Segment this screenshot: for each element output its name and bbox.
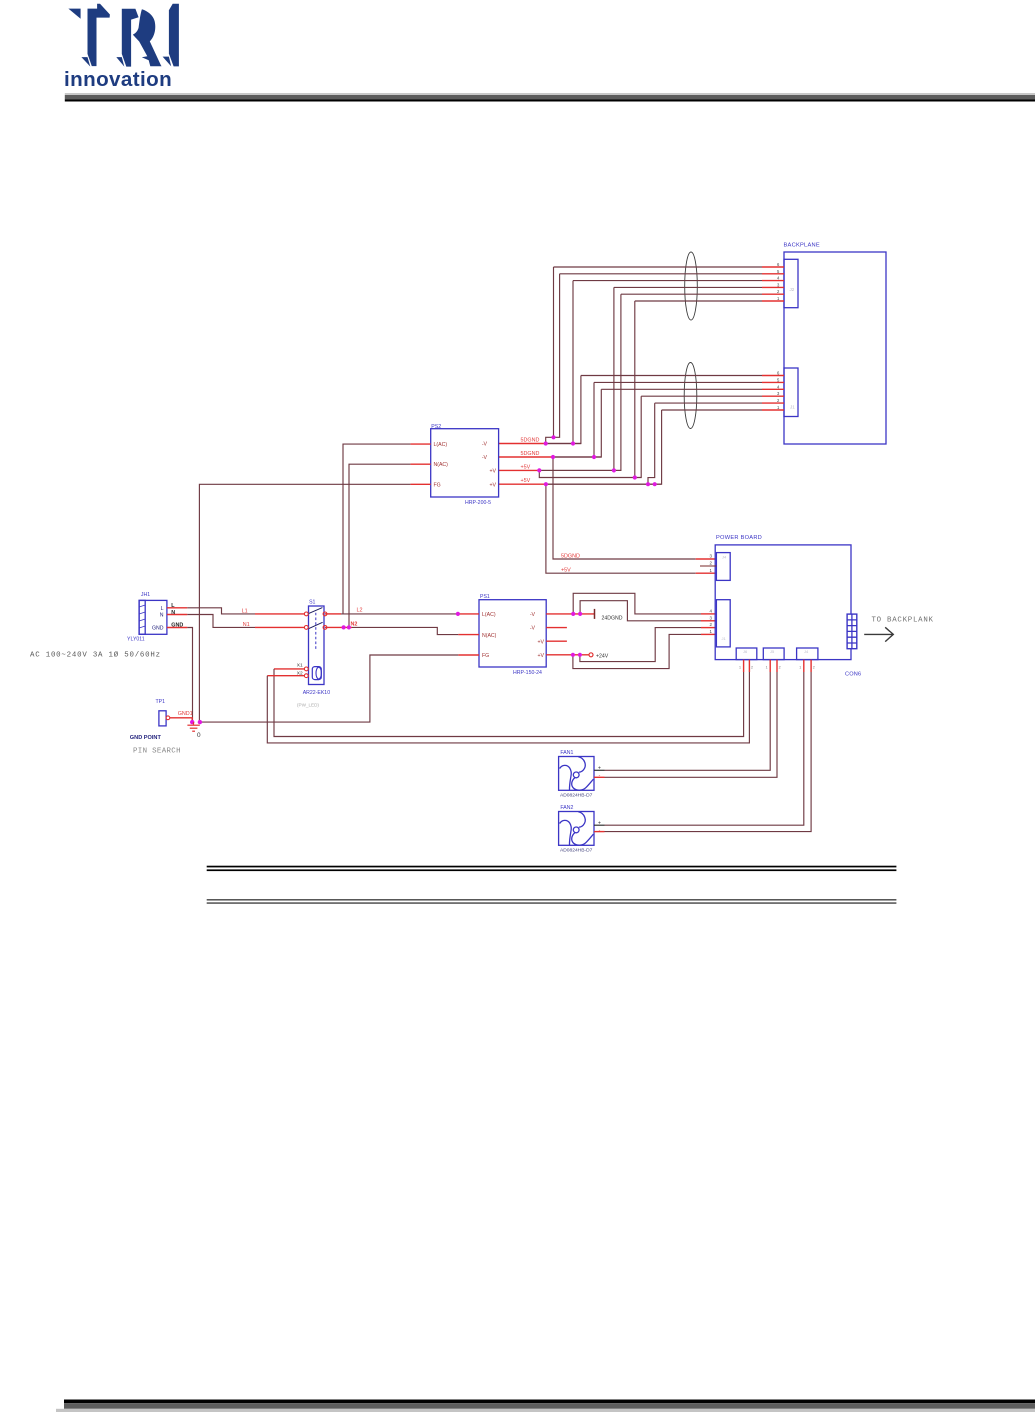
wire 24DGND outer to power board pin4 xyxy=(573,593,701,614)
footer rule xyxy=(56,1400,1035,1412)
svg-text:2: 2 xyxy=(751,666,753,670)
svg-text:L(AC): L(AC) xyxy=(434,442,448,448)
svg-text:L2: L2 xyxy=(357,608,363,614)
wire PS2 FG to ground xyxy=(199,484,410,722)
wire net N1 xyxy=(187,615,255,628)
svg-text:S1: S1 xyxy=(309,599,315,605)
svg-text:1: 1 xyxy=(799,666,801,670)
power board connector J6 (bottom 1) xyxy=(736,648,757,672)
fan FAN2 AD0824HB-D7 xyxy=(559,805,605,853)
svg-text:BACKPLANE: BACKPLANE xyxy=(784,243,820,249)
svg-text:3: 3 xyxy=(777,391,780,396)
svg-text:N: N xyxy=(160,613,164,619)
wire PS2 +V2 row +5V xyxy=(499,483,546,485)
svg-text:FG: FG xyxy=(434,482,441,488)
power supply PS1 HRP-150-24 xyxy=(458,594,567,676)
svg-text:HRP-150-24: HRP-150-24 xyxy=(513,670,542,676)
switch pole contacts xyxy=(304,612,308,616)
cable ellipse bottom xyxy=(684,363,697,429)
svg-text:N2: N2 xyxy=(351,621,358,627)
svg-text:CON6: CON6 xyxy=(845,672,861,678)
svg-text:3: 3 xyxy=(777,282,780,287)
wire FAN2 - to power board J4b xyxy=(605,672,812,832)
logo TRI innovation xyxy=(64,4,179,91)
power board xyxy=(715,535,851,660)
svg-text:PS1: PS1 xyxy=(480,594,490,600)
power board connector J5 (bottom 2) xyxy=(763,648,784,672)
svg-text:2: 2 xyxy=(779,666,781,670)
wire net 5DGND-A to J2 pin6 xyxy=(554,266,763,268)
power board connector J4b (bottom 3) xyxy=(797,648,818,672)
svg-text:5: 5 xyxy=(777,269,780,274)
wire PS2 +V1 row +5V xyxy=(499,469,540,471)
svg-text:5DGND: 5DGND xyxy=(521,438,540,444)
svg-text:1: 1 xyxy=(710,629,713,634)
connector J2 (backplane top) xyxy=(762,259,798,307)
wire +24V outer to power board pin1 xyxy=(573,634,701,668)
wire net 5DGND-B to J1 pin5 xyxy=(594,381,762,383)
svg-text:1: 1 xyxy=(710,568,713,573)
wire net 5DGND-A to J2 pin5 xyxy=(560,273,762,275)
svg-text:-V: -V xyxy=(530,612,536,618)
ground symbol xyxy=(187,722,199,731)
svg-text:24DGND: 24DGND xyxy=(602,615,623,621)
svg-text:N(AC): N(AC) xyxy=(434,462,449,468)
svg-text:TO BACKPLANK: TO BACKPLANK xyxy=(872,617,934,625)
svg-text:J6: J6 xyxy=(743,649,748,654)
svg-text:YLY011: YLY011 xyxy=(127,636,145,642)
svg-text:J5: J5 xyxy=(770,649,775,654)
wire drop +5V to power board pin1 xyxy=(546,484,696,573)
wire net 24DGND from PS1 -V xyxy=(546,613,594,615)
svg-text:GND1: GND1 xyxy=(178,711,193,717)
svg-text:J1: J1 xyxy=(790,405,795,410)
wire X1 pin2 to power board J6 xyxy=(267,675,304,677)
junction dots 24DGND xyxy=(571,612,582,616)
svg-text:FAN2: FAN2 xyxy=(560,805,573,811)
fan FAN1 AD0824HB-D7 xyxy=(559,750,605,798)
header rule xyxy=(65,93,1035,102)
wire ground bus to PS1 FG xyxy=(200,655,458,722)
svg-text:J2: J2 xyxy=(790,287,795,292)
wire FAN1 - to power board J5 xyxy=(605,672,778,777)
svg-text:5: 5 xyxy=(777,377,780,382)
svg-text:GND POINT: GND POINT xyxy=(130,735,162,741)
svg-text:6: 6 xyxy=(777,262,780,267)
svg-text:POWER BOARD: POWER BOARD xyxy=(716,535,762,541)
arrow to backplane xyxy=(864,627,893,641)
junction dots N2/L2 xyxy=(342,612,461,630)
svg-text:+24V: +24V xyxy=(596,653,609,659)
wire net 5DGND-B to J1 pin4 xyxy=(601,388,762,390)
wire drop 5DGND to power board pin3 xyxy=(553,457,696,559)
svg-text:2: 2 xyxy=(777,398,780,403)
svg-text:+5V: +5V xyxy=(521,478,531,484)
wire net +5V-A to J1 pin3 xyxy=(641,395,762,397)
svg-text:J4: J4 xyxy=(804,649,809,654)
svg-text:X1: X1 xyxy=(297,663,303,669)
wire net +5V-A to J2 pin2 xyxy=(621,293,762,295)
svg-text:+V: +V xyxy=(538,653,545,659)
separator double line 2 xyxy=(207,899,897,903)
svg-text:AD0824HB-D7: AD0824HB-D7 xyxy=(560,792,593,798)
wire net L1 xyxy=(187,608,255,614)
svg-text:N(AC): N(AC) xyxy=(482,633,497,639)
svg-text:6: 6 xyxy=(777,371,780,376)
backplane board xyxy=(784,243,887,445)
junction dots ground xyxy=(190,720,202,724)
wire net +5V-B to J1 pin1 xyxy=(662,409,762,411)
svg-text:JH1: JH1 xyxy=(141,592,150,598)
wire PS2 L(AC) from L2 xyxy=(343,444,410,614)
svg-text:+V: +V xyxy=(538,639,545,645)
svg-text:GND: GND xyxy=(171,622,183,628)
svg-text:1: 1 xyxy=(766,666,768,670)
wire FAN1 + to power board J5 xyxy=(605,672,771,770)
svg-text:L1: L1 xyxy=(242,608,248,614)
power board connector J1 (mid-left 4pin) xyxy=(710,600,731,647)
svg-text:4: 4 xyxy=(777,276,780,281)
wire JH1 GND down xyxy=(187,628,192,723)
svg-text:5DGND: 5DGND xyxy=(561,554,580,560)
svg-text:N: N xyxy=(171,610,175,616)
svg-text:HRP-200-5: HRP-200-5 xyxy=(465,500,491,506)
junction dots +24V xyxy=(571,653,582,657)
svg-text:1: 1 xyxy=(739,666,741,670)
svg-text:PIN SEARCH: PIN SEARCH xyxy=(133,748,181,756)
cable ellipse top xyxy=(685,252,698,320)
wire net L2 xyxy=(325,613,341,615)
svg-text:1: 1 xyxy=(777,296,780,301)
connector J1 (backplane bottom) xyxy=(762,368,798,417)
connector CON6 xyxy=(845,614,861,677)
power board connector J4 (top-left 3pin) xyxy=(700,553,730,581)
wire X1 pin1 to power board J6 xyxy=(274,668,304,670)
wire 24DGND inner to power board pin3 xyxy=(580,601,701,621)
svg-text:+5V: +5V xyxy=(561,568,571,574)
svg-text:TP1: TP1 xyxy=(156,699,166,705)
svg-text:1: 1 xyxy=(777,405,780,410)
svg-text:+V: +V xyxy=(490,469,497,475)
power supply PS2 HRP-200-5 xyxy=(410,424,498,506)
svg-text:(PW_LED): (PW_LED) xyxy=(297,703,319,708)
svg-text:-V: -V xyxy=(482,455,488,461)
wire FAN2 + to power board J4b xyxy=(605,672,804,825)
wire PS2 -V2 row 5DGND xyxy=(499,456,553,458)
svg-text:-V: -V xyxy=(482,442,488,448)
net terminator bar 24DGND xyxy=(594,609,596,619)
wire net +5V-A to J2 pin1 xyxy=(635,300,762,302)
wire net N2 xyxy=(325,626,352,628)
svg-text:-V: -V xyxy=(530,626,536,632)
wire net +5V-A to J2 pin3 xyxy=(614,286,762,288)
wire net +5V-B to J1 pin2 xyxy=(655,402,762,404)
test point TP1 xyxy=(156,699,193,726)
svg-text:2: 2 xyxy=(710,622,713,627)
junction dots PS2 output rows xyxy=(537,435,657,486)
svg-text:AC 100~240V 3A 1Ø 50/60Hz: AC 100~240V 3A 1Ø 50/60Hz xyxy=(30,651,161,660)
connector JH1 YLY011 xyxy=(127,592,187,642)
svg-text:2: 2 xyxy=(710,561,713,566)
svg-text:4: 4 xyxy=(710,609,713,614)
svg-text:J4: J4 xyxy=(722,555,727,560)
svg-text:5DGND: 5DGND xyxy=(521,451,540,457)
svg-text:N1: N1 xyxy=(243,622,250,628)
svg-text:+5V: +5V xyxy=(521,464,531,470)
switch S1 AR22-EK10 xyxy=(303,599,331,696)
svg-text:J1: J1 xyxy=(722,636,727,641)
svg-text:AR22-EK10: AR22-EK10 xyxy=(303,690,331,696)
wire PS2 N(AC) from N2 xyxy=(349,464,410,627)
svg-text:2: 2 xyxy=(813,666,815,670)
svg-text:4: 4 xyxy=(777,384,780,389)
svg-text:innovation: innovation xyxy=(64,68,172,91)
svg-text:AD0824HB-D7: AD0824HB-D7 xyxy=(560,847,593,853)
separator double line 1 xyxy=(207,866,897,871)
svg-text:L: L xyxy=(161,606,164,612)
svg-text:PS2: PS2 xyxy=(431,424,441,430)
wire PS2 -V1 row 5DGND xyxy=(499,443,546,445)
svg-text:0: 0 xyxy=(197,732,201,739)
svg-text:GND: GND xyxy=(152,626,164,632)
svg-text:3: 3 xyxy=(710,615,713,620)
svg-text:L(AC): L(AC) xyxy=(482,612,496,618)
svg-text:2: 2 xyxy=(777,289,780,294)
wire net 5DGND-A to J1 pin6 xyxy=(581,375,762,377)
+24V terminal circle xyxy=(589,653,593,657)
wire +24V inner to power board pin2 xyxy=(580,628,701,662)
svg-text:3: 3 xyxy=(710,554,713,559)
svg-text:FG: FG xyxy=(482,653,489,659)
svg-text:FAN1: FAN1 xyxy=(560,750,573,756)
wire net 5DGND-A to J2 pin4 xyxy=(573,280,762,282)
svg-text:+V: +V xyxy=(490,482,497,488)
wire net +24V from PS1 +V xyxy=(546,654,588,656)
lamp PW_LED inside S1 xyxy=(312,667,321,680)
